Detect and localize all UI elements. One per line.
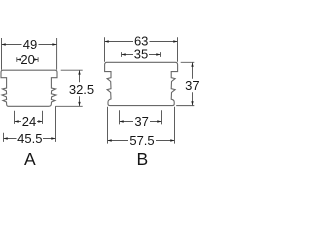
dim 49 arrows [2,43,57,45]
dim 37 bottom extension lines [120,110,162,124]
svg-text:20: 20 [20,52,34,67]
part B outline [105,62,178,105]
dim 32.5 extension lines [56,70,83,106]
svg-text:32.5: 32.5 [69,82,94,97]
dim 37 bottom line [120,121,162,123]
part A outline [1,70,57,106]
dim 49 line [2,44,57,46]
dim 45.5 line [4,138,56,140]
dim 24 arrows [15,120,43,122]
dim 57.5 arrows [108,139,175,141]
svg-text:A: A [24,149,36,169]
svg-text:45.5: 45.5 [17,131,42,146]
dim 57.5 extension lines [108,107,175,144]
svg-text:49: 49 [23,37,37,52]
dim 45.5 arrows [4,137,56,139]
dim 37 right extension lines [176,62,194,105]
dim 63 extension lines [105,37,178,62]
dim 35 ticks [122,52,161,57]
dim 35 arrows [122,53,161,55]
dim 24 extension lines [15,111,43,124]
svg-text:B: B [136,149,148,169]
dim 20 line [17,59,38,61]
svg-text:37: 37 [134,114,148,129]
dim 37 bottom arrows [120,120,162,122]
dim 45.5 extension lines [4,106,56,142]
svg-text:35: 35 [134,47,148,62]
svg-text:24: 24 [22,114,36,129]
dim 49 extension lines [2,38,57,70]
svg-text:37: 37 [185,78,199,93]
dim 37 right line [192,62,194,105]
dim 35 line [122,54,161,56]
svg-text:57.5: 57.5 [129,133,154,148]
dim 20 arrows [17,58,38,60]
dim 37 right arrows [191,63,193,106]
dim 24 line [15,121,43,123]
dim 63 line [105,41,178,43]
dim 57.5 line [108,140,175,142]
dim 32.5 line [79,70,81,106]
dim 63 arrows [105,40,178,42]
dim 20 ticks [17,57,38,62]
dim 32.5 arrows [78,70,80,106]
